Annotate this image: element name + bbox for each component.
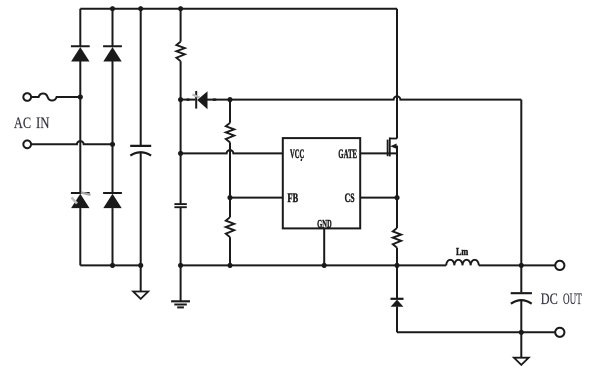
svg-text:OUT: OUT xyxy=(563,291,582,308)
svg-text:Lm: Lm xyxy=(456,246,468,258)
svg-text:FB: FB xyxy=(288,191,299,205)
svg-text:IN: IN xyxy=(36,115,49,132)
svg-text:AC: AC xyxy=(14,115,31,132)
svg-text:GATE: GATE xyxy=(338,147,357,161)
svg-text:DC: DC xyxy=(541,291,558,308)
svg-text:CS: CS xyxy=(345,191,355,205)
